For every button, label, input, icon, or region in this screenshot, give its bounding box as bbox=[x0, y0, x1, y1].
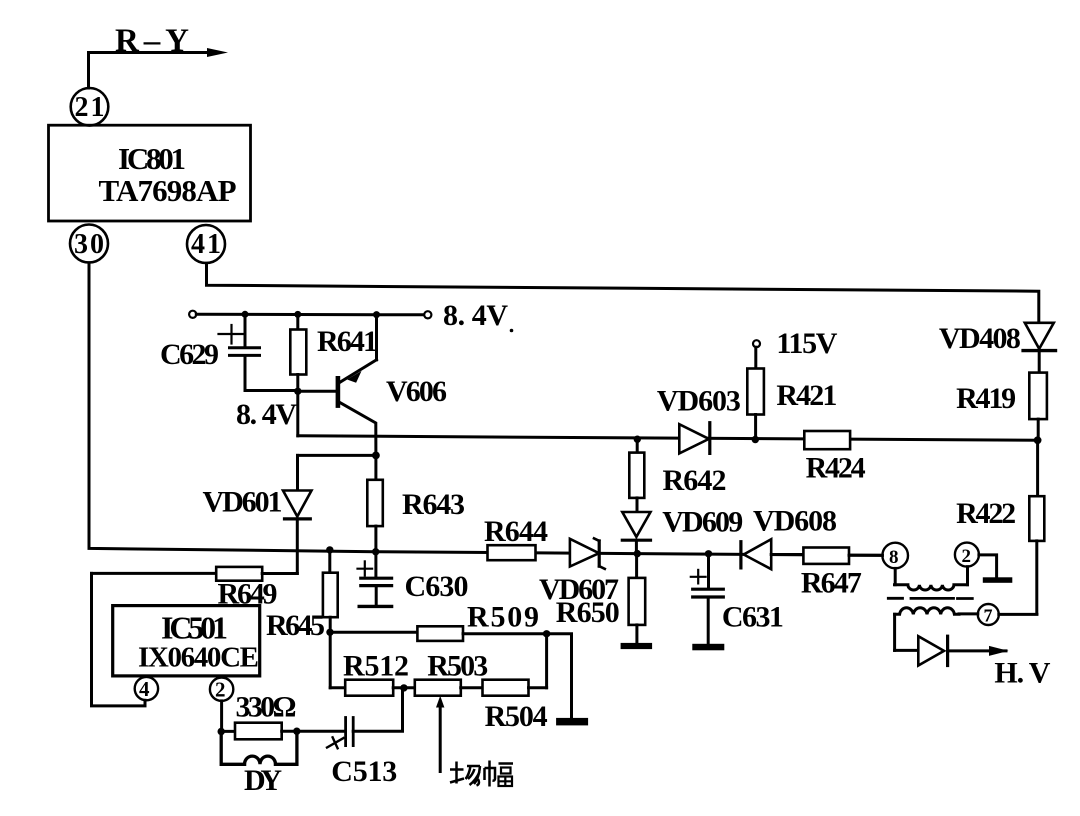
svg-text:4: 4 bbox=[139, 677, 150, 701]
svg-text:R643: R643 bbox=[402, 488, 465, 521]
svg-text:DY: DY bbox=[244, 764, 282, 797]
svg-text:R504: R504 bbox=[485, 700, 548, 733]
svg-text:VD603: VD603 bbox=[657, 385, 741, 418]
svg-text:R503: R503 bbox=[427, 650, 488, 683]
svg-text:R642: R642 bbox=[663, 464, 727, 497]
svg-text:C513: C513 bbox=[331, 755, 397, 788]
svg-text:VD601: VD601 bbox=[203, 486, 283, 519]
svg-text:VD408: VD408 bbox=[939, 322, 1021, 355]
svg-text:R649: R649 bbox=[218, 578, 278, 611]
svg-text:R512: R512 bbox=[343, 650, 409, 683]
svg-text:R421: R421 bbox=[776, 379, 837, 412]
svg-text:R650: R650 bbox=[556, 596, 620, 629]
svg-text:R645: R645 bbox=[266, 609, 325, 642]
svg-text:R–Y: R–Y bbox=[115, 23, 189, 59]
svg-text:2: 2 bbox=[962, 546, 972, 567]
svg-text:R419: R419 bbox=[956, 382, 1016, 415]
svg-text:R644: R644 bbox=[484, 515, 548, 548]
svg-text:R509: R509 bbox=[467, 601, 539, 634]
svg-text:8. 4V: 8. 4V bbox=[443, 299, 508, 332]
svg-text:IC501: IC501 bbox=[161, 609, 228, 645]
svg-text:8: 8 bbox=[889, 547, 899, 568]
svg-text:R422: R422 bbox=[956, 497, 1016, 530]
svg-text:C629: C629 bbox=[160, 338, 219, 371]
svg-text:R647: R647 bbox=[801, 567, 862, 600]
svg-text:TA7698AP: TA7698AP bbox=[99, 173, 237, 208]
svg-text:C630: C630 bbox=[405, 570, 469, 603]
svg-text:H. V: H. V bbox=[994, 657, 1050, 690]
svg-text:2: 2 bbox=[215, 678, 226, 702]
svg-text:V606: V606 bbox=[386, 375, 447, 408]
svg-text:7: 7 bbox=[984, 606, 993, 626]
svg-text:IX0640CE: IX0640CE bbox=[138, 642, 259, 674]
svg-text:8. 4V: 8. 4V bbox=[236, 398, 297, 431]
svg-text:115V: 115V bbox=[776, 327, 837, 360]
svg-text:R641: R641 bbox=[317, 325, 378, 358]
svg-text:IC801: IC801 bbox=[118, 141, 186, 176]
svg-text:330Ω: 330Ω bbox=[236, 691, 297, 724]
svg-text:VD609: VD609 bbox=[662, 506, 743, 539]
svg-text:R424: R424 bbox=[806, 452, 866, 485]
svg-text:VD608: VD608 bbox=[753, 505, 837, 538]
svg-text:C631: C631 bbox=[722, 601, 784, 634]
